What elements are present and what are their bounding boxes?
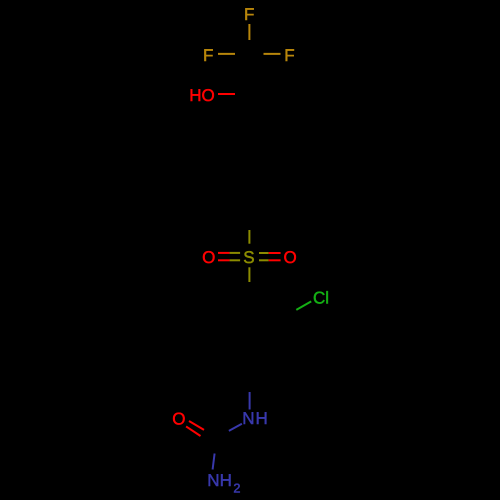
svg-text:O: O [283,248,296,267]
bond S1=O3 upper line (O half red) [269,252,281,254]
bond S1-C7 (S half, olive vertical below S) [248,267,250,282]
bond S1=O2 lower line (O half red) [218,259,230,261]
bond C1-F3 (F half, gold horizontal) [264,53,281,55]
svg-text:F: F [203,46,213,65]
bond S1=O2 upper line (O half red) [218,252,230,254]
bond S1=O2 lower line (S half olive) [230,259,241,261]
bond C1-F1 (F half, gold vertical) [248,24,250,40]
svg-text:2: 2 [233,480,240,495]
bond C11-N2 (N half, blue line to NH2) [213,454,215,470]
bond C1-F2 (F half, gold horizontal) [218,53,235,55]
bond C8-Cl1 (Cl half, green diagonal) [296,301,311,310]
bond S1=O2 upper line (S half olive) [230,252,241,254]
bond C10-N1 (N half, blue vertical above NH) [249,392,251,410]
bond C11=O4 upper line (O half red) [189,421,204,430]
bond S1=O3 lower line (S half olive) [259,259,269,261]
svg-text:O: O [202,248,215,267]
svg-text:F: F [244,5,254,24]
bond C6-S (S half, olive vertical above S) [248,230,250,244]
bond C11=O4 lower line (O half red) [186,426,200,436]
bond C2-O1 (O half, red horizontal) [218,93,235,95]
svg-text:NH: NH [207,471,232,490]
svg-text:F: F [284,46,294,65]
svg-text:O: O [172,409,185,428]
svg-text:S: S [243,248,254,267]
bond S1=O3 upper line (S half olive) [259,252,269,254]
svg-text:Cl: Cl [313,288,329,307]
bond S1=O3 lower line (O half red) [269,259,281,261]
svg-text:HO: HO [189,86,215,105]
bond N1-C11 (N half, blue diagonal to urea carbon) [229,424,242,431]
svg-text:NH: NH [242,409,269,428]
